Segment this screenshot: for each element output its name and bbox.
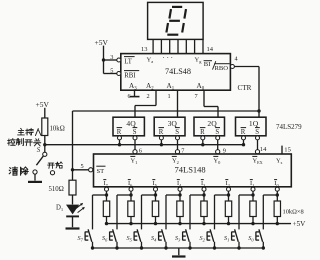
wire jog to switch S7: [93, 194, 107, 196]
pushbutton switch S3: [182, 232, 184, 241]
pushbutton switch S5: [133, 232, 135, 241]
svg-text:S: S: [255, 129, 259, 136]
svg-text:510Ω: 510Ω: [49, 186, 64, 193]
input I2 pin bubble and wire: [227, 187, 231, 191]
wire CTR horizontal run: [73, 110, 260, 112]
svg-text:RBO: RBO: [215, 65, 229, 72]
wire jog to switch S0: [263, 194, 277, 196]
resistor pull-up R7 10k: [103, 201, 109, 217]
clear contact (qingchu): [33, 170, 37, 174]
svg-text:3Q: 3Q: [168, 119, 178, 128]
svg-text:1: 1: [168, 93, 171, 100]
IC U1 74LS48 BCD-7seg decoder box: [121, 54, 231, 91]
svg-text:2Q: 2Q: [207, 119, 217, 128]
resistor pull-up R6 10k: [128, 201, 134, 217]
input I3 pin bubble and wire: [202, 187, 206, 191]
latch U2d 74LS279 1Q: [236, 117, 267, 136]
wire A3 stub: [134, 90, 136, 96]
svg-text:LT: LT: [124, 58, 133, 65]
wire CTR down to LED branch: [72, 111, 74, 180]
wire ground bus: [93, 247, 264, 249]
svg-text:ST: ST: [97, 168, 105, 175]
wire jog to switch S6: [117, 194, 131, 196]
text kong (control): [8, 138, 16, 145]
input I1 pin bubble and wire: [251, 187, 255, 191]
svg-text:BI: BI: [204, 61, 211, 68]
wire A0 to latch 2Q: [203, 90, 205, 107]
wire to ST input: [73, 169, 89, 171]
svg-text:5: 5: [110, 67, 113, 74]
resistor pull-up R3 10k: [201, 201, 207, 217]
svg-text:14: 14: [207, 46, 214, 53]
svg-text:5: 5: [81, 163, 84, 170]
wire to pin 3: [104, 59, 117, 61]
host control switch S pole: [43, 152, 47, 156]
resistor 10k host pull-up: [42, 118, 48, 136]
wire to pin 5: [104, 73, 117, 75]
wire +5V pull-up bus: [107, 223, 292, 225]
LED D1: [66, 205, 79, 215]
svg-text:R: R: [241, 129, 246, 136]
text qing (clear): [9, 167, 17, 175]
switch arm: [36, 156, 43, 165]
svg-text:2: 2: [147, 93, 150, 100]
pushbutton switch S0: [255, 232, 257, 241]
svg-text:4Q: 4Q: [126, 119, 136, 128]
input I0 pin bubble and wire: [275, 187, 279, 191]
svg-text:3: 3: [110, 54, 113, 61]
wire jog to switch S5: [142, 194, 156, 196]
text zhu (host): [18, 128, 25, 135]
pushbutton switch S1: [231, 232, 233, 241]
input I5 pin bubble and wire: [154, 187, 158, 191]
7-segment digit 8: [172, 6, 182, 8]
pushbutton switch S4: [158, 232, 160, 241]
text ren: [35, 129, 41, 136]
svg-text:+5V: +5V: [36, 100, 50, 109]
start contact (kaishi): [50, 171, 54, 175]
svg-text:R: R: [200, 129, 205, 136]
wire LED to ground: [72, 216, 74, 227]
svg-text:CTR: CTR: [238, 84, 252, 92]
wire jog to switch S3: [190, 194, 204, 196]
wire clear bus R: [45, 144, 244, 146]
svg-text:S: S: [133, 129, 137, 136]
svg-text:S: S: [215, 129, 219, 136]
input I6 pin bubble and wire: [129, 187, 133, 191]
wire jog to switch S2: [215, 194, 229, 196]
svg-text:R: R: [159, 129, 164, 136]
svg-text:74LS48: 74LS48: [165, 67, 191, 76]
wire jog to switch S1: [239, 194, 253, 196]
latch U2a 74LS279 4Q: [113, 117, 144, 136]
pin 15 stub: [281, 146, 283, 154]
resistor pull-up R1 10k: [250, 201, 256, 217]
svg-text:14: 14: [260, 146, 267, 153]
svg-text:+5V: +5V: [293, 220, 307, 228]
pushbutton switch S2: [206, 232, 208, 241]
pushbutton switch S7: [84, 232, 86, 241]
svg-text:· · ·: · · ·: [163, 54, 174, 62]
resistor 510 ohm: [69, 180, 76, 195]
svg-text:10kΩ×8: 10kΩ×8: [283, 209, 304, 216]
text chi: [26, 128, 34, 135]
svg-text:74LS148: 74LS148: [175, 165, 206, 175]
wire +5V to R 10k: [44, 108, 46, 118]
text guan: [34, 139, 41, 146]
svg-text:S: S: [175, 129, 179, 136]
text kai: [25, 140, 32, 146]
resistor pull-up R0 10k: [274, 201, 280, 217]
text kai (start): [48, 163, 55, 168]
svg-text:S: S: [37, 147, 41, 154]
7-segment LED display box: [148, 2, 204, 39]
wire +5V down: [103, 46, 105, 74]
svg-text:7: 7: [195, 93, 198, 100]
text shi: [56, 162, 63, 168]
IC U3 74LS148 priority encoder box: [94, 154, 292, 187]
svg-text:74LS279: 74LS279: [276, 123, 302, 131]
wire A1 to latch 3Q: [177, 90, 179, 117]
input I7 pin bubble and wire: [105, 187, 109, 191]
display pin wires: [152, 39, 154, 53]
wire resistor to node: [44, 136, 46, 145]
svg-text:15: 15: [284, 147, 291, 154]
wire resistor to LED: [72, 195, 74, 204]
pushbutton switch S6: [109, 232, 111, 241]
latch U2c 74LS279 2Q: [194, 117, 225, 136]
svg-text:RBI: RBI: [124, 72, 136, 79]
wire node to switch pole: [44, 145, 46, 153]
ground stem: [178, 248, 180, 255]
svg-text:10kΩ: 10kΩ: [50, 126, 65, 133]
latch U2b 74LS279 3Q: [154, 117, 185, 136]
wire BI/RBO CTR line: [234, 66, 259, 68]
input I4 pin bubble and wire: [178, 187, 182, 191]
resistor pull-up R5 10k: [152, 201, 158, 217]
LED light arrows: [76, 203, 83, 208]
ground symbol (switch bus): [172, 255, 186, 257]
resistor pull-up R4 10k: [177, 201, 183, 217]
wire jog to switch S4: [166, 194, 180, 196]
svg-text:+5V: +5V: [95, 38, 109, 47]
wire A2 to latch 4Q: [155, 90, 157, 106]
resistor pull-up R2 10k: [225, 201, 231, 217]
ground tie bar A3: [130, 96, 140, 98]
svg-text:1Q: 1Q: [249, 119, 259, 128]
svg-text:R: R: [117, 129, 122, 136]
text zhi: [16, 138, 23, 145]
text chu: [21, 167, 29, 175]
svg-text:13: 13: [141, 46, 148, 53]
